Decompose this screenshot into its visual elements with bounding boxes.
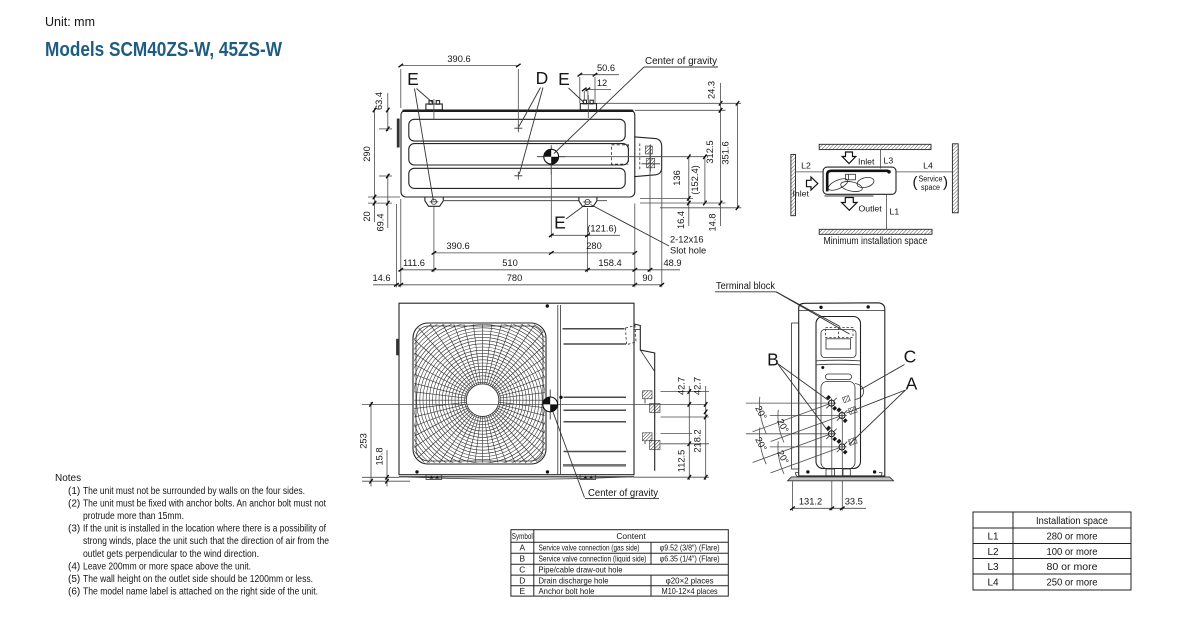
svg-text:33.5: 33.5 xyxy=(845,497,863,507)
svg-text:L2: L2 xyxy=(801,161,811,171)
svg-text:280 or more: 280 or more xyxy=(1047,531,1098,542)
svg-text:24.3: 24.3 xyxy=(706,81,716,99)
angle dim 20 deg set 2 xyxy=(770,410,839,443)
dimension row 111.6 / 510 / 158.4 / 48.9 xyxy=(399,258,682,272)
dimension 390.6 (top row) xyxy=(399,54,521,127)
side view: bottom screws xyxy=(806,470,809,473)
dimension 290 xyxy=(362,108,400,200)
svg-text:Inlet: Inlet xyxy=(858,157,875,167)
svg-text:A: A xyxy=(520,543,526,553)
svg-text:158.4: 158.4 xyxy=(598,258,621,268)
svg-text:L1: L1 xyxy=(890,207,900,217)
side view: body outline xyxy=(799,303,885,476)
svg-text:250 or more: 250 or more xyxy=(1047,577,1098,588)
min space: fan blade 2 xyxy=(840,180,863,194)
front view: left extension lines xyxy=(362,476,399,478)
leader A to valve A2 xyxy=(849,390,906,445)
svg-text:The model name label is attach: The model name label is attached on the … xyxy=(83,587,318,598)
dimension 42.7 (second) and 218.2 xyxy=(693,377,708,480)
top view: bottom foot right bolt xyxy=(585,199,590,204)
svg-text:The wall height on the outlet: The wall height on the outlet side shoul… xyxy=(83,574,313,585)
svg-text:Content: Content xyxy=(616,531,646,541)
symbol table frame xyxy=(511,530,728,596)
svg-text:218.2: 218.2 xyxy=(693,429,703,452)
svg-text:136: 136 xyxy=(672,170,682,186)
top view: slat 3 xyxy=(409,168,625,188)
svg-text:L3: L3 xyxy=(884,156,894,166)
dimension row 14.6 / 780 / 90 xyxy=(372,273,664,287)
svg-text:Leave 200mm or more space abov: Leave 200mm or more space above the unit… xyxy=(83,561,251,572)
svg-text:20°: 20° xyxy=(753,404,769,421)
svg-text:C: C xyxy=(519,565,525,575)
svg-text:14.8: 14.8 xyxy=(707,213,717,231)
svg-text:φ9.52 (3/8″) (Flare): φ9.52 (3/8″) (Flare) xyxy=(660,543,720,553)
dimension (152.4) xyxy=(690,154,706,205)
top view: slat 1 xyxy=(409,119,625,141)
svg-text:Anchor bolt hole: Anchor bolt hole xyxy=(539,586,595,596)
min space: L3 line xyxy=(879,150,881,169)
svg-text:(121.6): (121.6) xyxy=(587,223,616,233)
front view: bottom gray slit xyxy=(563,464,626,467)
min space: fan blade 3 xyxy=(856,176,875,189)
svg-text:63.4: 63.4 xyxy=(374,92,384,110)
svg-text:50.6: 50.6 xyxy=(597,63,615,73)
front view: base bowl curve xyxy=(408,477,626,479)
svg-text:The unit must be fixed with an: The unit must be fixed with anchor bolts… xyxy=(83,498,326,509)
leader B to valve B1 xyxy=(778,364,829,401)
svg-text:253: 253 xyxy=(359,433,369,449)
svg-text:(3): (3) xyxy=(68,524,80,535)
svg-text:42.7: 42.7 xyxy=(693,377,703,395)
svg-text:E: E xyxy=(558,69,570,89)
min space: inlet arrow left xyxy=(807,177,818,190)
side view: valve A2 flare hatch xyxy=(848,437,857,445)
side view: body bottom edge xyxy=(799,475,885,477)
top view: right extension lines xyxy=(597,102,741,104)
leader slot hole xyxy=(591,205,670,247)
leader E to bottom-right foot xyxy=(566,205,586,220)
svg-text:390.6: 390.6 xyxy=(447,54,470,64)
front view: base line xyxy=(399,476,634,478)
front view: valve cluster 2 (hatched) xyxy=(643,433,661,450)
leader center of gravity xyxy=(554,67,644,154)
svg-text:14.6: 14.6 xyxy=(372,273,390,283)
svg-text:280: 280 xyxy=(586,241,602,251)
side view: service valve A1 xyxy=(836,407,847,423)
dimension 12 xyxy=(582,78,611,100)
min space: top wall xyxy=(819,144,931,149)
top view: base rail bottom line xyxy=(444,200,579,202)
svg-text:20°: 20° xyxy=(775,417,791,434)
min space: unit bottom shade xyxy=(825,195,874,197)
angle dim 20 deg set 4 xyxy=(770,441,839,474)
side view: valve B1 flare hatch xyxy=(842,395,850,402)
front view: foot right xyxy=(580,475,596,480)
side view: service valve B1 (gas) xyxy=(826,395,837,411)
min space: left wall xyxy=(791,154,796,215)
svg-text:Models SCM40ZS-W, 45ZS-W: Models SCM40ZS-W, 45ZS-W xyxy=(45,39,282,61)
svg-text:D: D xyxy=(536,68,549,88)
front view: right rear profile xyxy=(634,324,655,471)
svg-text:780: 780 xyxy=(507,273,523,283)
top view: valve detail upper (hatched) xyxy=(645,146,652,154)
svg-text:48.9: 48.9 xyxy=(663,258,681,268)
svg-text:strong winds, place the unit s: strong winds, place the unit such that t… xyxy=(83,536,329,547)
dimension 63.4 xyxy=(374,92,392,131)
top view: foot top-left bolt axis xyxy=(433,99,435,119)
side view: valve panel xyxy=(821,382,855,469)
svg-text:312.5: 312.5 xyxy=(705,140,715,163)
svg-text:390.6: 390.6 xyxy=(446,241,469,251)
angle dim 20 deg set 1 xyxy=(746,397,829,434)
svg-text:16.4: 16.4 xyxy=(676,211,686,229)
leader E to top-right foot xyxy=(569,88,585,103)
svg-text:protrude more than 15mm.: protrude more than 15mm. xyxy=(83,511,184,522)
front view: dashed draw-out hole top right xyxy=(626,326,637,345)
top view: bulge inner edge dashed xyxy=(639,144,641,171)
svg-text:L1: L1 xyxy=(987,531,999,542)
svg-text:100 or more: 100 or more xyxy=(1047,547,1098,558)
svg-text:φ20×2 places: φ20×2 places xyxy=(666,575,714,585)
leader D to drain cross 1 xyxy=(519,88,541,127)
svg-text:(5): (5) xyxy=(68,574,80,585)
top view: mounting foot top-right (E) xyxy=(580,100,596,110)
svg-text:φ6.35 (1/4″) (Flare): φ6.35 (1/4″) (Flare) xyxy=(660,554,720,564)
svg-text:D: D xyxy=(519,575,525,585)
svg-text:42.7: 42.7 xyxy=(676,377,686,395)
svg-text:Service valve connection (liqu: Service valve connection (liquid side) xyxy=(539,554,647,564)
dimension 15.8 xyxy=(375,447,389,486)
top view: drain hole cross D2 xyxy=(514,172,522,180)
svg-text:C: C xyxy=(904,347,917,367)
svg-text:Installation space: Installation space xyxy=(1036,516,1108,527)
svg-text:(152.4): (152.4) xyxy=(690,165,700,194)
svg-text:(6): (6) xyxy=(68,587,80,598)
side view: service valve B2 (liquid) xyxy=(826,426,837,442)
svg-text:Center of gravity: Center of gravity xyxy=(588,488,658,499)
side view: top screws xyxy=(819,306,822,309)
svg-text:A: A xyxy=(906,374,918,394)
dimension (121.6) xyxy=(549,223,620,237)
dimension 390.6 (bottom) and 280 xyxy=(432,241,637,255)
svg-text:(4): (4) xyxy=(68,561,80,572)
side view: left fin panel xyxy=(792,323,799,469)
svg-text:Pipe/cable draw-out hole: Pipe/cable draw-out hole xyxy=(539,565,623,575)
top view: drain hole cross D1 xyxy=(514,124,522,132)
svg-text:Inlet: Inlet xyxy=(793,189,810,199)
svg-text:Unit: mm: Unit: mm xyxy=(45,15,95,29)
svg-text:111.6: 111.6 xyxy=(403,258,425,268)
side view: service valve A2 xyxy=(836,439,847,455)
top view: service valve cover bulge xyxy=(634,137,661,177)
leader D to drain cross 2 xyxy=(519,88,543,175)
leader terminal block 1 xyxy=(776,292,840,327)
svg-text:E: E xyxy=(554,213,566,233)
installation table grid xyxy=(973,527,1131,529)
front view: valve cluster 1 (hatched) xyxy=(643,391,661,417)
svg-text:2-12x16: 2-12x16 xyxy=(670,235,704,245)
front view: fan grille rings and spokes xyxy=(386,303,580,497)
min space: L1 line xyxy=(886,195,888,230)
svg-text:Notes: Notes xyxy=(55,473,81,484)
svg-text:290: 290 xyxy=(362,146,372,162)
side view: panel divider xyxy=(816,360,861,365)
svg-text:L2: L2 xyxy=(987,547,999,558)
top view: CoG horizontal line to right columns xyxy=(559,156,706,158)
leader C to draw-out bump xyxy=(861,365,905,390)
svg-text:112.5: 112.5 xyxy=(676,450,686,473)
angle dim 20 deg set 3 xyxy=(746,428,829,465)
top view: bottom foot left (E) xyxy=(425,197,443,206)
side view: panel screw dot xyxy=(821,366,824,369)
side view: draw-out bump (C) xyxy=(855,384,864,400)
front view: panel divider lines xyxy=(557,305,559,474)
top view: foot top-right bolt axis xyxy=(587,95,589,118)
svg-text:12: 12 xyxy=(597,78,607,88)
svg-text:Service valve connection (gas: Service valve connection (gas side) xyxy=(539,543,640,553)
front view: foot left xyxy=(426,475,442,480)
svg-text:E: E xyxy=(407,69,419,89)
front view: center of gravity symbol xyxy=(543,390,558,420)
min space: fan motor xyxy=(846,174,856,180)
min space: heat exchanger thick line xyxy=(827,171,888,192)
svg-text:131.2: 131.2 xyxy=(799,497,822,507)
leader A to valve A1 xyxy=(847,390,906,413)
svg-text:Center of gravity: Center of gravity xyxy=(645,56,717,67)
dimension 42.7 (first) and 112.5 xyxy=(676,377,691,480)
side view: terminal cover xyxy=(821,330,856,358)
side view: valve A1 flare hatch xyxy=(848,406,857,414)
side view: valve construction lines xyxy=(831,403,833,510)
svg-text:510: 510 xyxy=(502,258,518,268)
svg-text:M10-12×4 places: M10-12×4 places xyxy=(662,586,718,596)
front view: left tab xyxy=(396,339,399,356)
svg-text:Slot hole: Slot hole xyxy=(670,246,706,256)
installation table frame xyxy=(973,512,1131,590)
side view: panel brackets xyxy=(826,469,835,476)
front view: slit end dot xyxy=(559,396,562,399)
top view: bottom foot right (E) xyxy=(579,197,597,206)
svg-text:(2): (2) xyxy=(68,498,80,509)
min space: fan blade 1 xyxy=(827,176,850,192)
dimension 253 xyxy=(359,402,373,487)
svg-text:20°: 20° xyxy=(753,435,769,452)
svg-text:15.8: 15.8 xyxy=(375,447,385,465)
top view: base rail bottom line right part xyxy=(597,200,607,202)
leader E to top foot xyxy=(417,89,434,104)
svg-text:20: 20 xyxy=(362,211,372,221)
svg-text:L4: L4 xyxy=(923,161,933,171)
svg-text:69.4: 69.4 xyxy=(375,213,385,231)
front view: unit body xyxy=(399,303,634,475)
min space: L4 line xyxy=(896,171,952,173)
svg-text:80 or more: 80 or more xyxy=(1047,562,1098,573)
side view: service panel xyxy=(816,317,861,469)
dimension 24.3 xyxy=(706,81,722,113)
svg-text:outlet gets perpendicular to t: outlet gets perpendicular to the wind di… xyxy=(83,549,259,560)
top view: slat 2 xyxy=(409,144,629,165)
min space: bottom wall xyxy=(819,229,932,234)
svg-text:351.6: 351.6 xyxy=(721,141,731,164)
svg-text:If the unit is installed in th: If the unit is installed in the location… xyxy=(83,524,326,535)
dimension 136 xyxy=(672,154,691,226)
dimension 50.6 xyxy=(578,63,620,103)
svg-text:20°: 20° xyxy=(775,449,791,466)
min space: right wall xyxy=(952,144,958,213)
svg-text:(1): (1) xyxy=(68,486,80,497)
svg-text:Terminal block: Terminal block xyxy=(716,281,776,292)
svg-text:B: B xyxy=(767,350,779,370)
svg-text:90: 90 xyxy=(642,273,652,283)
leader E to bottom foot xyxy=(415,89,434,201)
min space: L2 line xyxy=(796,171,824,173)
dimension 351.6 xyxy=(721,101,740,210)
svg-text:Drain discharge hole: Drain discharge hole xyxy=(539,575,609,585)
top view: dashed interior outline near right xyxy=(612,145,629,164)
svg-text:E: E xyxy=(520,586,526,596)
svg-text:(: ( xyxy=(913,174,918,191)
top view: bottom extension lines xyxy=(395,204,397,287)
front view: fan grille border xyxy=(413,323,546,464)
min space: outlet arrow xyxy=(842,198,857,211)
dimension 20 xyxy=(362,199,392,222)
front view: CoG horizontal line xyxy=(362,403,706,405)
top view: thick top edge xyxy=(403,110,634,112)
front view: fan hub xyxy=(466,384,499,417)
dimension 131.2 / 33.5 xyxy=(790,482,866,512)
top view: left side tab xyxy=(397,119,400,148)
front view: screws bottom xyxy=(415,470,418,473)
svg-text:Outlet: Outlet xyxy=(859,204,883,214)
side view: handle slit xyxy=(826,374,852,380)
min space: unit outline xyxy=(823,167,896,194)
top view: valve axis lines xyxy=(641,156,661,158)
side view: foot hooks xyxy=(796,473,800,477)
svg-text:L4: L4 xyxy=(987,577,999,588)
symbol table grid xyxy=(511,541,728,543)
side view: top band line xyxy=(799,310,885,312)
dimension 69.4 xyxy=(375,174,392,232)
svg-text:The unit must not be surrounde: The unit must not be surrounded by walls… xyxy=(83,486,305,497)
top view: mounting foot top-left (E) xyxy=(426,101,442,110)
dimension 312.5 xyxy=(705,108,722,226)
front view: screw top xyxy=(546,304,549,307)
side view: terminal block dashed xyxy=(826,328,854,338)
svg-text:space: space xyxy=(921,183,940,192)
top view: center of gravity symbol xyxy=(537,145,565,174)
svg-text:L3: L3 xyxy=(987,562,999,573)
front view: right extension lines xyxy=(661,391,710,393)
top view: unit body outline xyxy=(401,110,635,197)
svg-text:Minimum installation space: Minimum installation space xyxy=(824,236,928,247)
front view: vent slits right panel xyxy=(563,329,627,452)
front view: CoG leader xyxy=(553,412,585,498)
leader terminal block 2 xyxy=(776,292,850,334)
top view: bottom foot left bolt xyxy=(431,199,436,204)
svg-text:Symbol: Symbol xyxy=(512,531,533,541)
min space: inlet arrow top xyxy=(842,152,856,164)
top view: valve detail lower (hatched) xyxy=(647,158,655,168)
side view: terminal window xyxy=(826,339,851,349)
leader B to valve B2 xyxy=(778,364,829,432)
side view: base plate xyxy=(788,477,894,481)
svg-text:B: B xyxy=(520,554,526,564)
svg-text:): ) xyxy=(943,174,948,191)
